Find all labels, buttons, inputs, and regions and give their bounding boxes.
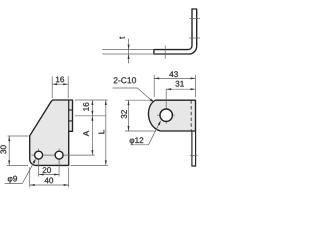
label phi9 leader (22, 160, 35, 184)
side plate edge-on strip below plate (192, 131, 196, 166)
dim 20: text (43, 167, 51, 173)
dim 40: text (45, 178, 54, 184)
dim 20: extension lines (38, 161, 40, 177)
dim 40: dimension line (30, 184, 69, 186)
dim 16 top: extension lines (51, 76, 53, 98)
dim 32: dimension line (128, 100, 130, 131)
hole centerline horizontal (32, 154, 95, 156)
flange tick 1 (68, 109, 73, 111)
dim 20: dimension line (39, 174, 60, 176)
hole centerline vertical right (58, 149, 60, 162)
hole centerline vertical left (38, 149, 40, 162)
dim 16 right: dimension line (91, 100, 93, 116)
label phi12 text (130, 137, 144, 144)
flange inner face line (68, 100, 70, 131)
dim 31: text (176, 81, 184, 87)
hole phi12 centerline horizontal (157, 114, 175, 116)
dim L: text (rotated) (99, 130, 105, 134)
dim 31: dimension line (166, 88, 195, 90)
hole phi9 right (55, 151, 63, 159)
label phi12 leader arrowhead (158, 121, 161, 126)
label phi9 leader arrowhead (33, 159, 36, 164)
tick on strip (phi9 axis) (190, 154, 198, 156)
dim 43: text (169, 71, 178, 77)
dim 40: extension lines (29, 167, 31, 187)
hole phi12 (160, 109, 172, 121)
bracket side-view plate outline (30, 100, 73, 165)
dim L: dimension line (105, 100, 107, 165)
dim 30: extension lines (8, 135, 29, 137)
bottom extension line for L (71, 164, 108, 166)
dim 43: dimension line (154, 77, 195, 79)
dim t: text (rotated) (119, 37, 124, 39)
dim 16 right: text (rotated) (83, 103, 89, 111)
label 2-C10 leader arrowhead (150, 99, 154, 103)
label 2-C10 leader underline (113, 87, 138, 89)
tick on vertical arm lower (189, 37, 200, 39)
dim t: extension lines (102, 49, 154, 51)
dim A: dimension line (91, 116, 93, 155)
label phi12 leader (149, 122, 161, 145)
dim t: dimension line (128, 39, 130, 64)
dim 16 right vertical: extension lines (75, 99, 108, 101)
dim 16 top: text (56, 77, 64, 83)
hole phi12 centerline vertical (165, 89, 167, 124)
dim 16 top: dimension line (52, 83, 68, 85)
dim A: text (rotated) (83, 131, 89, 136)
flange tick 2 (68, 120, 73, 122)
hidden dashed line (side plate behind) (190, 100, 192, 131)
dim 30: text (rotated) (0, 145, 6, 153)
L-bar outline (154, 9, 197, 54)
front plate outline with rounded tab end (148, 100, 195, 131)
dim 30: dimension line (8, 136, 10, 165)
dim 43: extension lines (153, 75, 155, 97)
dim 32: extension lines (125, 99, 153, 101)
label 2-C10 leader (138, 88, 154, 102)
label phi9 text (8, 176, 17, 183)
label phi12 leader underline (131, 144, 149, 146)
dim 32: text (rotated) (121, 110, 127, 118)
tick on horizontal arm (164, 46, 166, 59)
label 2-C10 text (114, 77, 136, 83)
tick on vertical arm upper (189, 17, 200, 19)
label phi9 leader underline (5, 183, 23, 185)
hole phi9 left (35, 151, 43, 159)
